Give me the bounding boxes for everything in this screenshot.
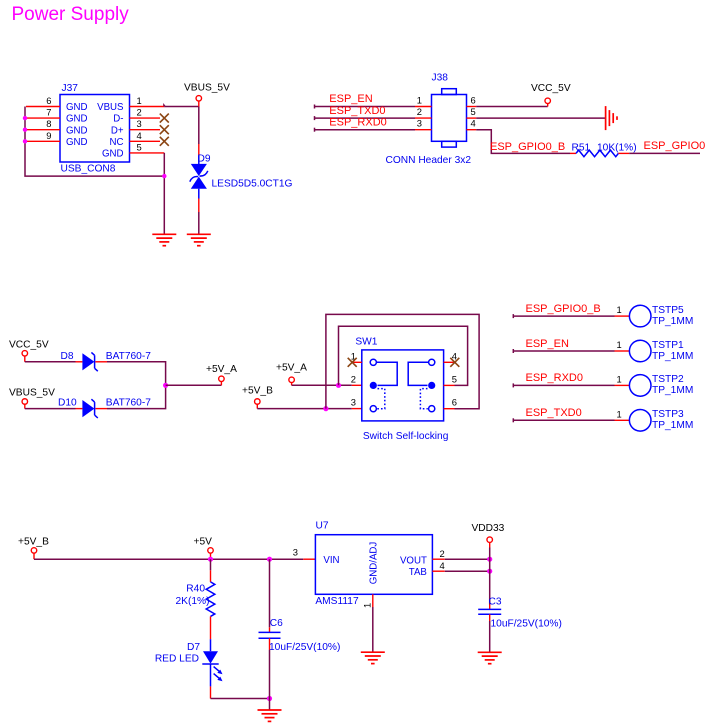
power symbol +5V (194, 537, 214, 560)
pin number 4 (137, 130, 142, 141)
wire J37 pin2 no-connect (130, 117, 161, 119)
wire VCC_5V to D8 (25, 361, 83, 363)
wire J37 pin7 (26, 117, 60, 119)
pin number 7 (46, 107, 51, 118)
junction +5V (208, 557, 213, 562)
capacitor C3 10uF/25V(10%) (478, 597, 562, 653)
test point TSTP1 TP_1MM (629, 340, 693, 362)
svg-text:2: 2 (137, 107, 142, 118)
power symbol VDD33 (472, 523, 505, 605)
svg-text:ESP_TXD0: ESP_TXD0 (329, 105, 385, 117)
svg-text:D8: D8 (61, 351, 74, 362)
pin number 1 (TSTP5) (617, 304, 622, 315)
svg-text:Switch Self-locking: Switch Self-locking (363, 431, 449, 442)
svg-text:4: 4 (440, 560, 445, 571)
junction diode-OR (163, 383, 168, 388)
wire J37 pin1 VBUS (130, 103, 199, 107)
pin number 4 (U7 TAB) (440, 560, 445, 571)
svg-text:VBUS_5V: VBUS_5V (184, 83, 230, 94)
pin number 1 (U7 GND) rotated (362, 603, 373, 608)
svg-text:4: 4 (471, 118, 476, 129)
power symbol VCC_5V (D8) (9, 339, 49, 362)
junction GND bus (162, 174, 166, 178)
pin number 8 (46, 118, 51, 129)
svg-text:5: 5 (452, 373, 457, 384)
capacitor C6 10uF/25V(10%) (259, 559, 341, 698)
wire VBUS_5V to D10 (25, 408, 83, 410)
net ESP_GPIO0 wire (629, 140, 705, 153)
wire junction to +5V_A (166, 384, 222, 386)
wire J37 pin9 (26, 140, 60, 142)
pin number 2 (137, 107, 142, 118)
wire SW1 pin6 loop (outer) (326, 314, 479, 408)
pin number 3 (U7 VIN) (293, 546, 298, 557)
wire J37 pin4 no-connect (130, 140, 161, 142)
svg-text:USB_CON8: USB_CON8 (61, 164, 116, 175)
svg-text:TSTP5: TSTP5 (652, 305, 684, 316)
svg-text:+5V: +5V (194, 537, 213, 548)
wire junction to ground (269, 699, 271, 711)
net ESP_GPIO0_B wire (TSTP5) (513, 303, 629, 318)
pin number 3 (137, 118, 142, 129)
svg-text:ESP_EN: ESP_EN (526, 338, 569, 350)
junction TAB (487, 569, 492, 574)
pin number 4 (J38) (471, 118, 476, 129)
pin number 6 (SW1) (452, 397, 457, 408)
svg-text:+5V_B: +5V_B (242, 386, 273, 397)
svg-text:4: 4 (137, 130, 142, 141)
junction pin7 (23, 116, 27, 120)
svg-text:2: 2 (417, 106, 422, 117)
svg-text:R51: R51 (572, 143, 591, 154)
pin number 2 (J38) (417, 106, 422, 117)
svg-text:J37: J37 (62, 83, 79, 94)
net ESP_RXD0 wire (315, 116, 432, 131)
wire J38 pin4 / net ESP_GPIO0_B (467, 130, 571, 154)
pin number 1 (TSTP1) (617, 339, 622, 350)
svg-text:1: 1 (137, 95, 142, 106)
svg-text:3: 3 (293, 546, 298, 557)
svg-text:10uF/25V(10%): 10uF/25V(10%) (269, 642, 340, 653)
svg-text:VBUS_5V: VBUS_5V (9, 388, 55, 399)
svg-text:2K(1%): 2K(1%) (176, 596, 210, 607)
svg-text:10uF/25V(10%): 10uF/25V(10%) (491, 618, 562, 629)
wire GND bus left vertical (25, 107, 164, 177)
pin number 3 (SW1) (351, 397, 356, 408)
test point TSTP3 TP_1MM (629, 409, 693, 431)
svg-text:ESP_TXD0: ESP_TXD0 (526, 407, 582, 419)
ground (U7) (361, 652, 385, 663)
svg-text:+5V_B: +5V_B (18, 537, 49, 548)
svg-text:8: 8 (46, 118, 51, 129)
net ESP_EN wire (315, 93, 432, 108)
no-connect X pin2 (160, 114, 169, 123)
wire LED to ground bus (211, 698, 270, 700)
wire U7 GND pin to ground (372, 594, 374, 652)
svg-text:+5V_A: +5V_A (276, 363, 307, 374)
svg-text:RED LED: RED LED (155, 653, 199, 664)
junction pin9 (23, 139, 27, 143)
junction +5V_A loop (336, 383, 341, 388)
svg-text:1: 1 (417, 94, 422, 105)
svg-text:CONN Header 3x2: CONN Header 3x2 (386, 155, 472, 166)
diode D10 BAT760-7 (58, 398, 151, 418)
svg-text:R40: R40 (186, 583, 205, 594)
pin number 1 (137, 95, 142, 106)
pin number 2 (SW1) (351, 373, 356, 384)
svg-text:VIN: VIN (323, 555, 339, 566)
svg-text:9: 9 (46, 130, 51, 141)
diode D8 BAT760-7 (61, 351, 152, 371)
svg-text:GND: GND (66, 102, 88, 113)
power symbol +5V_B (bottom rail) (18, 537, 49, 560)
svg-text:GND/ADJ: GND/ADJ (369, 542, 380, 585)
svg-text:ESP_EN: ESP_EN (329, 93, 372, 105)
svg-text:TP_1MM: TP_1MM (652, 351, 693, 362)
pin number 1 (SW1) (351, 350, 356, 361)
svg-text:LESD5D5.0CT1G: LESD5D5.0CT1G (212, 179, 293, 190)
wire SW1 pin5 loop (inner) (339, 326, 468, 385)
wire D8 to +5V_A junction (95, 362, 165, 386)
svg-text:ESP_RXD0: ESP_RXD0 (526, 372, 583, 384)
power symbol VBUS_5V (184, 83, 230, 107)
svg-text:ESP_GPIO0_B: ESP_GPIO0_B (490, 141, 565, 153)
svg-text:GND: GND (66, 114, 88, 125)
test point TSTP5 TP_1MM (629, 305, 693, 327)
net ESP_RXD0 wire (TSTP2) (513, 372, 629, 387)
svg-text:1: 1 (617, 304, 622, 315)
svg-text:1: 1 (617, 408, 622, 419)
svg-text:7: 7 (46, 107, 51, 118)
svg-text:GND: GND (102, 149, 124, 160)
ground (rotated, J38 pin5) (606, 106, 617, 130)
svg-text:U7: U7 (316, 521, 329, 532)
power symbol VCC_5V (J38) (531, 83, 571, 107)
svg-text:TP_1MM: TP_1MM (652, 385, 693, 396)
svg-text:GND: GND (66, 137, 88, 148)
power symbol +5V_A (SW1 input) (276, 363, 307, 386)
wire U7 VOUT to VDD33 (432, 558, 489, 560)
svg-text:BAT760-7: BAT760-7 (106, 351, 151, 362)
svg-text:ESP_GPIO0_B: ESP_GPIO0_B (526, 303, 601, 315)
svg-text:SW1: SW1 (355, 336, 377, 347)
ground (USB shell) (152, 234, 176, 245)
svg-text:3: 3 (351, 397, 356, 408)
wire J38 pin5 to ground (467, 117, 606, 119)
svg-text:J38: J38 (432, 73, 449, 84)
svg-text:Power Supply: Power Supply (12, 4, 130, 25)
wire +5V_A to SW1 pin2 (292, 384, 362, 386)
svg-text:NC: NC (110, 137, 124, 148)
wire J38 pin6 to VCC_5V (467, 106, 548, 108)
wire +5V_B to SW1 pin3 (257, 408, 362, 410)
resistor R40 2K(1%) (176, 559, 215, 639)
svg-text:VOUT: VOUT (400, 555, 427, 566)
svg-text:3: 3 (417, 118, 422, 129)
svg-text:ESP_GPIO0: ESP_GPIO0 (644, 140, 706, 152)
svg-text:VDD33: VDD33 (472, 523, 505, 534)
svg-text:10K(1%): 10K(1%) (597, 143, 637, 154)
no-connect X pin3 (160, 125, 169, 134)
power symbol VBUS_5V (D10) (9, 388, 55, 409)
power symbol +5V_B (SW1 input) (242, 386, 273, 409)
svg-text:GND: GND (66, 125, 88, 136)
svg-text:6: 6 (452, 397, 457, 408)
ground (C6 / LED) (258, 710, 282, 721)
wire D9 to ground (198, 189, 200, 235)
svg-text:5: 5 (471, 106, 476, 117)
svg-text:5: 5 (137, 142, 142, 153)
junction ground bus (267, 696, 272, 701)
wire VBUS_5V to D9 (198, 107, 200, 165)
wire U7 TAB to VDD33 (432, 570, 489, 572)
TVS diode D9 LESD5D5.0CT1G (190, 153, 293, 189)
pin number 5 (J38) (471, 106, 476, 117)
svg-text:D7: D7 (187, 642, 200, 653)
pin number 1 (TSTP3) (617, 408, 622, 419)
svg-text:AMS1117: AMS1117 (315, 596, 359, 607)
wire J37 pin5 GND (130, 153, 165, 234)
svg-text:TSTP2: TSTP2 (652, 374, 684, 385)
svg-text:1: 1 (362, 603, 373, 608)
net ESP_EN wire (TSTP1) (513, 338, 629, 353)
ground (C3) (478, 652, 502, 663)
junction pin8 (23, 128, 27, 132)
svg-text:+5V_A: +5V_A (206, 364, 237, 375)
svg-text:2: 2 (440, 548, 445, 559)
svg-text:1: 1 (617, 339, 622, 350)
svg-text:VBUS: VBUS (97, 102, 124, 113)
ground (VBUS TVS) (187, 234, 211, 245)
no-connect X SW1 pin4 (450, 358, 459, 367)
svg-text:D10: D10 (58, 398, 77, 409)
wire SW1 pin4 stub (444, 361, 455, 363)
svg-text:VCC_5V: VCC_5V (531, 83, 571, 94)
regulator U7 AMS1117 (315, 521, 432, 607)
no-connect X pin4 (160, 137, 169, 146)
svg-text:C3: C3 (489, 597, 502, 608)
pin number 1 (J38) (417, 94, 422, 105)
svg-text:TP_1MM: TP_1MM (652, 316, 693, 327)
svg-text:3: 3 (137, 118, 142, 129)
LED D7 RED LED (155, 639, 223, 698)
pin number 1 (TSTP2) (617, 373, 622, 384)
svg-text:1: 1 (617, 373, 622, 384)
net ESP_TXD0 wire (TSTP3) (513, 407, 629, 422)
resistor R51 10K(1%) (570, 143, 637, 157)
junction C6 branch (267, 557, 272, 562)
pin number 9 (46, 130, 51, 141)
pin number 6 (J38) (471, 94, 476, 105)
wire J37 pin3 no-connect (130, 129, 161, 131)
svg-text:C6: C6 (270, 618, 283, 629)
svg-text:TSTP3: TSTP3 (652, 409, 684, 420)
svg-text:ESP_RXD0: ESP_RXD0 (329, 116, 386, 128)
svg-text:6: 6 (46, 95, 51, 106)
svg-text:6: 6 (471, 94, 476, 105)
svg-text:VCC_5V: VCC_5V (9, 339, 49, 350)
wire SW1 pin1 stub (352, 361, 362, 363)
power symbol +5V_A (output) (206, 364, 237, 385)
connector J38 CONN Header 3x2 (386, 73, 472, 166)
svg-text:D+: D+ (111, 125, 124, 136)
pin number 6 (46, 95, 51, 106)
wire J37 pin8 (26, 129, 60, 131)
svg-text:TAB: TAB (409, 567, 427, 578)
pin number 3 (J38) (417, 118, 422, 129)
pin number 5 (137, 142, 142, 153)
no-connect X SW1 pin1 (348, 358, 357, 367)
wire D10 to +5V_A junction (95, 385, 165, 408)
wire J37 pin6 (26, 106, 60, 108)
svg-text:BAT760-7: BAT760-7 (106, 398, 151, 409)
pin number 4 (SW1) (452, 350, 457, 361)
junction +5V_B loop (323, 406, 328, 411)
net ESP_TXD0 wire (315, 105, 432, 120)
switch SW1 Switch Self-locking (355, 336, 448, 442)
wire +5V_B rail (34, 558, 315, 560)
pin number 5 (SW1) (452, 373, 457, 384)
svg-text:2: 2 (351, 373, 356, 384)
svg-text:TP_1MM: TP_1MM (652, 420, 693, 431)
svg-text:D-: D- (113, 114, 123, 125)
junction VOUT (487, 557, 492, 562)
svg-text:TSTP1: TSTP1 (652, 340, 684, 351)
connector J37 USB_CON8 (60, 83, 130, 175)
svg-text:D9: D9 (198, 153, 211, 164)
pin number 2 (U7 VOUT) (440, 548, 445, 559)
test point TSTP2 TP_1MM (629, 374, 693, 396)
